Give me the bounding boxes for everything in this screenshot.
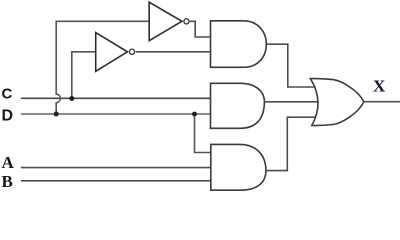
svg-text:X: X bbox=[373, 77, 386, 96]
wire OR output X bbox=[364, 101, 400, 103]
wire D branch to AND3 bbox=[195, 114, 211, 153]
wire top inverter output jog to AND1 bbox=[190, 21, 211, 37]
wire AND1 output to OR bbox=[266, 44, 315, 87]
AND gate U4 middle bbox=[211, 83, 265, 128]
node dot on C line bbox=[69, 96, 74, 101]
wire A input bbox=[21, 167, 211, 169]
svg-text:A: A bbox=[2, 153, 15, 172]
inverter U1 triangle (NOT D) bbox=[149, 2, 182, 41]
wire AND2 output to OR bbox=[264, 101, 318, 103]
svg-text:B: B bbox=[2, 172, 13, 191]
node dot on D line left bbox=[54, 112, 59, 117]
wire C input bbox=[21, 97, 211, 99]
wire B input bbox=[21, 180, 211, 182]
svg-text:D: D bbox=[2, 108, 14, 125]
wire D input bbox=[21, 113, 211, 115]
wire C to lower inverter bbox=[72, 52, 96, 99]
AND gate U3 top bbox=[211, 21, 267, 68]
inverter U2 triangle (NOT C) bbox=[96, 33, 128, 72]
wire D to top inverter (vertical with hop over C) bbox=[56, 21, 149, 114]
node dot on D line right bbox=[192, 112, 197, 117]
inverter U2 bubble bbox=[129, 49, 134, 54]
svg-text:C: C bbox=[2, 86, 13, 103]
OR gate U6 bbox=[310, 79, 364, 126]
wire lower inverter output to AND1 bbox=[136, 51, 211, 53]
wire AND3 output to OR bbox=[266, 117, 316, 170]
AND gate U5 bottom bbox=[211, 144, 266, 190]
inverter U1 bubble bbox=[184, 19, 189, 24]
